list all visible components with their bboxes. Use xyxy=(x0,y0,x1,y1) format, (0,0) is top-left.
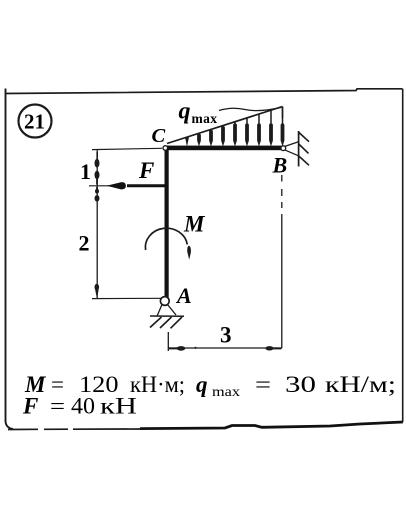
dim arrow seg1 up xyxy=(96,152,98,159)
left dimension extension line bottom xyxy=(92,297,162,299)
beam CB xyxy=(165,146,282,151)
dim arrow seg2 down xyxy=(95,284,100,291)
distributed load right edge xyxy=(282,107,284,119)
support B wall line xyxy=(298,131,300,167)
support A triangle legs xyxy=(157,305,176,316)
pin C xyxy=(163,146,168,151)
load arrow 6 xyxy=(246,118,248,125)
distributed load slope line xyxy=(167,107,283,144)
load arrow 4 xyxy=(221,126,225,146)
dim arrow seg2 up xyxy=(96,187,98,191)
svg-text:A: A xyxy=(175,283,192,308)
svg-text:3: 3 xyxy=(220,323,232,348)
extension line below B xyxy=(281,175,283,208)
load arrow 7 xyxy=(258,114,260,125)
pin A xyxy=(160,297,169,306)
wall hatch 1 xyxy=(299,132,309,141)
dimension 3 line xyxy=(168,347,282,349)
svg-text:C: C xyxy=(152,125,166,147)
support B triangle legs xyxy=(285,142,299,156)
dimension 3 line speck xyxy=(194,347,196,349)
moment M arc xyxy=(145,228,187,250)
wall hatch 3 xyxy=(299,156,309,165)
column AC xyxy=(165,146,169,298)
svg-text:F = 40 кН: F = 40 кН xyxy=(22,394,137,419)
svg-text:max: max xyxy=(192,111,218,126)
left dimension line xyxy=(96,150,98,299)
support A ground line xyxy=(150,315,184,317)
svg-text:B: B xyxy=(272,153,288,178)
load arrow 5 xyxy=(234,122,236,125)
svg-text:21: 21 xyxy=(24,110,45,134)
ground hatch 3 xyxy=(171,317,183,328)
variant number circle 21 xyxy=(19,105,52,138)
dim 3 arrow right xyxy=(265,346,273,350)
left dimension extension line top xyxy=(92,148,162,149)
svg-text:F: F xyxy=(138,158,154,183)
frame border right xyxy=(402,89,404,422)
frame border bottom xyxy=(8,428,140,431)
dim arrow seg1 down xyxy=(95,171,100,180)
svg-text:q: q xyxy=(179,99,191,125)
leader line from q label xyxy=(219,108,281,111)
load arrow 1 xyxy=(185,138,189,146)
svg-text:2: 2 xyxy=(79,231,90,256)
ground hatch 2 xyxy=(160,317,172,328)
load arrow 3 xyxy=(209,130,213,146)
ground hatch 1 xyxy=(150,317,162,328)
load arrow 8 xyxy=(270,111,272,126)
frame border top xyxy=(5,89,403,94)
pin B xyxy=(281,146,286,151)
frame border left xyxy=(6,89,14,430)
wall hatch 2 xyxy=(299,144,309,153)
load arrow 2 xyxy=(197,134,201,146)
dim 3 arrow left xyxy=(169,347,178,349)
force F arrow xyxy=(89,185,110,187)
load arrow 9 xyxy=(282,107,284,125)
svg-text:1: 1 xyxy=(80,159,91,184)
dimension 3 tick at A xyxy=(167,332,169,351)
svg-text:M: M xyxy=(183,212,206,237)
